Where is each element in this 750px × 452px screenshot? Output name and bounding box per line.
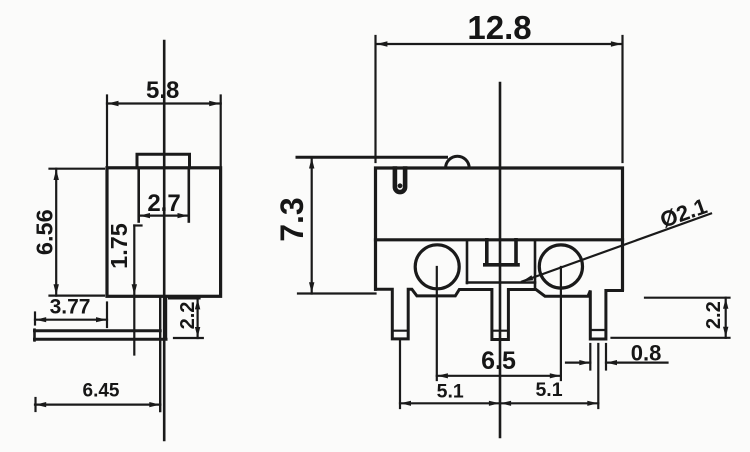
dim 5.1 far-right arrow xyxy=(587,401,598,406)
dim 0.8 left line xyxy=(566,362,590,364)
svg-text:Ø2.1: Ø2.1 xyxy=(657,193,710,232)
dim 0.8 left arrow (pointing right) xyxy=(579,360,590,365)
svg-text:1.75: 1.75 xyxy=(106,223,132,269)
svg-text:6.45: 6.45 xyxy=(83,381,120,402)
dim 2.2 left view: top arrow xyxy=(195,299,200,310)
dim 2.2 left view: bottom extension bar xyxy=(174,337,203,339)
dim 12.8 left extension xyxy=(374,36,376,162)
dim 0.8 right line xyxy=(606,362,668,364)
dim 2.2 right view: line xyxy=(725,298,727,338)
dim 5.8 right extension xyxy=(220,96,222,168)
right pin shoulder tick xyxy=(590,329,606,331)
dim 12.8 line xyxy=(376,43,622,45)
dim 6.56 bottom arrow xyxy=(54,284,59,295)
body bottom profile with feet and terminal pins xyxy=(376,289,623,339)
dim 0.8 right arrow (pointing left) xyxy=(606,360,617,365)
svg-text:12.8: 12.8 xyxy=(467,9,531,46)
dim 6.5 left arrow xyxy=(437,373,448,378)
dim 3.77 left extension tick xyxy=(34,313,36,325)
dim 1.75 line xyxy=(133,226,135,355)
dim 2.7 left arrow xyxy=(139,213,150,218)
dim 1.75 top tick xyxy=(134,224,141,226)
svg-text:2.2: 2.2 xyxy=(703,301,725,329)
dim 2.7 right arrow xyxy=(178,213,189,218)
lever vertical inner line xyxy=(159,296,161,411)
leader line for hole diameter xyxy=(522,214,711,282)
dim 3.77 right extension xyxy=(106,303,108,328)
dim 7.3 bottom extension xyxy=(298,292,376,294)
dim 2.2 left view: bottom arrow xyxy=(195,327,200,338)
base inner cavity left wall xyxy=(466,240,469,283)
dim 5.1 left line xyxy=(400,402,598,404)
inner plunger wall right xyxy=(188,170,191,222)
divider line between cover and base xyxy=(376,238,623,241)
svg-text:6.5: 6.5 xyxy=(481,347,516,375)
dim 2.2 right view: top extension bar xyxy=(645,297,730,299)
svg-text:0.8: 0.8 xyxy=(631,341,662,366)
dim 5.1 right extension (right pin center) xyxy=(597,344,599,408)
dim 6.45 line xyxy=(35,404,160,406)
dim 5.8 right arrow xyxy=(209,101,220,106)
latch inner dot xyxy=(398,183,403,188)
leader arrowhead xyxy=(522,275,533,281)
svg-text:2.2: 2.2 xyxy=(177,302,199,330)
dim 6.56 bottom extension xyxy=(50,295,105,297)
dim 6.45 right arrow xyxy=(149,402,160,407)
dim 2.2 right view: top arrow xyxy=(723,298,728,309)
dim 1.75 arrow xyxy=(132,284,137,295)
svg-text:7.3: 7.3 xyxy=(274,197,310,241)
dim 6.56 line xyxy=(55,169,57,296)
dim 6.5 line xyxy=(437,375,561,377)
center U-notch in base xyxy=(485,240,518,265)
inner plunger wall left xyxy=(137,170,140,222)
dim 6.56 top extension xyxy=(50,168,105,170)
centerline right view xyxy=(499,83,502,437)
dim 5.8 line xyxy=(107,102,221,104)
switch body outline (side view) xyxy=(107,168,221,296)
dim 6.45 left extension tick xyxy=(34,398,36,411)
dim 6.45 left arrow xyxy=(36,402,47,407)
roller bump on body top xyxy=(446,156,470,168)
lever arm bottom line xyxy=(35,338,167,341)
right mounting hole circle xyxy=(539,245,582,288)
dim 12.8 right arrow xyxy=(611,41,622,46)
svg-text:6.56: 6.56 xyxy=(32,209,58,255)
svg-text:5.1: 5.1 xyxy=(535,379,562,401)
dim 5.1 middle left arrow xyxy=(489,401,500,406)
lever arm top line xyxy=(35,329,161,332)
dim 6.5 right arrow xyxy=(550,373,561,378)
dim 12.8 right extension xyxy=(621,36,623,162)
lever arm left end cap xyxy=(33,330,36,341)
left hole center line extension xyxy=(436,267,438,380)
svg-text:5.8: 5.8 xyxy=(146,77,179,104)
pin right edge extension xyxy=(605,344,607,370)
pin left edge extension xyxy=(589,344,591,370)
dim 2.2 right view: bottom arrow xyxy=(723,327,728,338)
dim 12.8 left arrow xyxy=(376,41,387,46)
latch detail at top-left of body xyxy=(395,169,405,193)
dim 2.2 left view: line xyxy=(197,298,199,338)
left pin shoulder tick xyxy=(392,330,408,332)
dim 2.2 left view: top extension bar xyxy=(169,297,200,299)
base inner cavity right wall xyxy=(534,240,537,287)
svg-text:2.7: 2.7 xyxy=(147,190,180,217)
center pin shoulder tick xyxy=(492,330,509,332)
dim 7.3 top arrow xyxy=(309,158,314,169)
plunger bump on top of body xyxy=(137,154,190,168)
left mounting hole circle xyxy=(415,245,459,289)
dim 6.56 top arrow xyxy=(54,169,59,180)
dim 7.3 line xyxy=(311,157,313,293)
body outline (sides and top) xyxy=(376,168,623,289)
dim 2.2 right view: bottom extension bar xyxy=(612,337,730,339)
dim 5.1 far-left arrow xyxy=(400,401,411,406)
dim 5.8 left extension xyxy=(106,96,108,168)
dim 3.77 right arrow xyxy=(96,317,107,322)
dim 3.77 left arrow xyxy=(36,317,47,322)
svg-text:5.1: 5.1 xyxy=(437,381,464,403)
dim 5.1 middle right arrow xyxy=(500,401,511,406)
dim 2.7 line xyxy=(139,215,189,217)
centerline left view xyxy=(163,41,166,440)
lever vertical outer line xyxy=(165,296,167,339)
dim 7.3 bottom arrow xyxy=(309,282,314,293)
dim 5.1 left extension (left pin center) xyxy=(399,339,401,408)
dim 5.8 left arrow xyxy=(108,101,119,106)
lever (edge-on) line xyxy=(297,156,447,159)
dim 3.77 line xyxy=(35,319,107,321)
right hole center line extension xyxy=(560,267,562,380)
base inner cavity bottom line xyxy=(467,281,535,284)
svg-text:3.77: 3.77 xyxy=(50,296,91,319)
